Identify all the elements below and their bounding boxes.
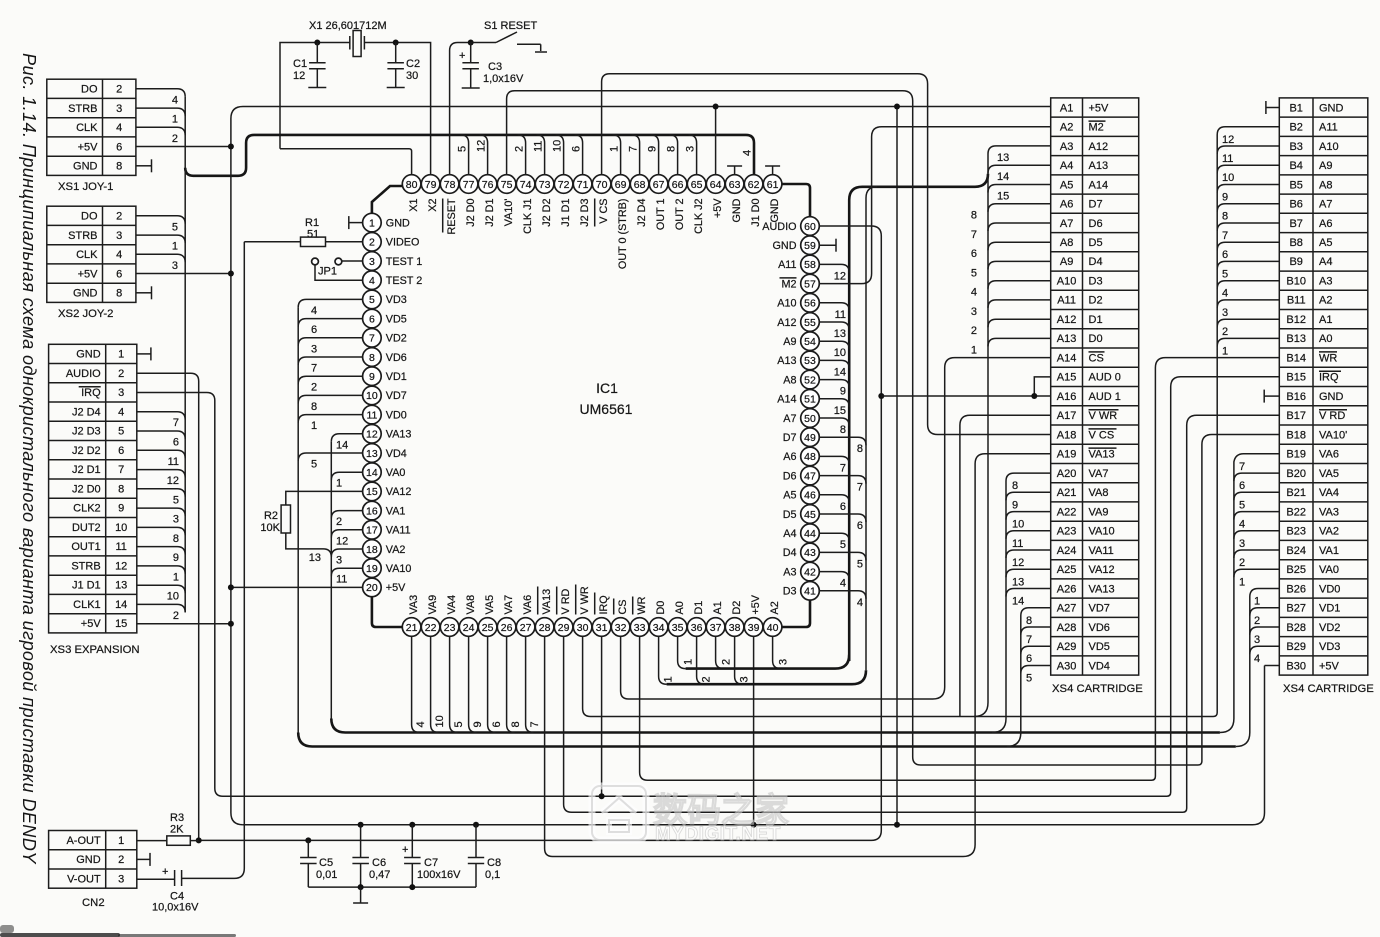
ground B16 (1264, 395, 1279, 397)
svg-text:3: 3 (118, 873, 124, 885)
svg-text:1: 1 (608, 146, 620, 152)
wire VD bundle left (297, 307, 299, 734)
svg-text:2: 2 (116, 84, 122, 96)
svg-text:V RD: V RD (560, 589, 572, 615)
svg-text:61: 61 (767, 179, 779, 191)
svg-text:D1: D1 (693, 601, 705, 615)
svg-text:2: 2 (173, 610, 179, 622)
svg-text:VA11: VA11 (1089, 545, 1114, 557)
svg-text:VA2: VA2 (1319, 526, 1339, 538)
svg-text:J2 D4: J2 D4 (636, 199, 648, 227)
svg-text:D5: D5 (783, 509, 797, 521)
wire joystick bus bold (185, 135, 754, 176)
capacitor C3 1,0x16V (459, 43, 524, 89)
svg-text:2: 2 (116, 211, 122, 223)
wire A bundle vertical right (849, 174, 988, 661)
svg-text:10: 10 (366, 390, 378, 402)
svg-text:D7: D7 (1089, 199, 1103, 211)
svg-text:J2 D0: J2 D0 (465, 199, 477, 227)
svg-text:A24: A24 (1057, 545, 1077, 557)
svg-text:J1 D1: J1 D1 (560, 199, 572, 227)
wire VCS pin70 to A18 (602, 74, 1051, 435)
wire XS1 +5V (136, 146, 231, 148)
svg-text:77: 77 (463, 179, 475, 191)
svg-text:VA11: VA11 (386, 525, 411, 537)
wire WR pin33 to B14 (640, 358, 1280, 781)
svg-text:10,0x16V: 10,0x16V (152, 902, 199, 914)
svg-text:A1: A1 (1319, 314, 1332, 326)
svg-text:47: 47 (804, 470, 816, 482)
svg-text:5: 5 (840, 539, 846, 551)
svg-text:A8: A8 (1319, 179, 1332, 191)
svg-text:A11: A11 (1057, 295, 1076, 307)
resistor R2 10K (260, 491, 362, 557)
svg-text:XS1 JOY-1: XS1 JOY-1 (58, 181, 113, 193)
svg-text:55: 55 (804, 317, 816, 329)
svg-text:A5: A5 (1319, 237, 1332, 249)
svg-text:14: 14 (366, 467, 378, 479)
svg-text:6: 6 (369, 313, 375, 325)
node C6 bottom (358, 884, 364, 890)
svg-text:23: 23 (444, 622, 456, 634)
node pin64 +5V (713, 104, 719, 110)
svg-text:+5V: +5V (81, 618, 102, 630)
svg-text:A9: A9 (783, 336, 796, 348)
svg-text:B19: B19 (1286, 449, 1306, 461)
svg-text:B20: B20 (1286, 468, 1306, 480)
svg-text:A12: A12 (777, 317, 796, 329)
svg-text:51: 51 (804, 394, 816, 406)
wire chip corner TL (372, 186, 402, 213)
svg-text:24: 24 (463, 622, 475, 634)
svg-text:4: 4 (971, 287, 977, 299)
svg-text:VIDEO: VIDEO (386, 237, 420, 249)
svg-text:34: 34 (653, 622, 665, 634)
svg-text:2: 2 (1222, 326, 1228, 338)
svg-text:VA3: VA3 (1319, 506, 1339, 518)
svg-text:12: 12 (293, 70, 305, 82)
svg-text:70: 70 (596, 179, 608, 191)
svg-text:VD6: VD6 (386, 352, 407, 364)
svg-text:A22: A22 (1057, 506, 1077, 518)
svg-text:B15: B15 (1286, 372, 1306, 384)
svg-text:C1: C1 (293, 58, 307, 70)
wire A6-A13 D hooks (971, 204, 1051, 357)
node +5V x897 top (894, 104, 900, 110)
node C5 top (305, 837, 311, 843)
svg-text:VA12: VA12 (1089, 564, 1115, 576)
svg-text:69: 69 (615, 179, 627, 191)
svg-text:5: 5 (172, 221, 178, 233)
svg-text:35: 35 (672, 622, 684, 634)
svg-text:9: 9 (173, 552, 179, 564)
wire XS3 +5V (137, 623, 231, 625)
svg-text:8: 8 (971, 210, 977, 222)
wire pin39 +5V (753, 636, 755, 825)
svg-text:8: 8 (173, 533, 179, 545)
svg-text:4: 4 (311, 305, 317, 317)
svg-text:A21: A21 (1057, 487, 1077, 499)
svg-text:4: 4 (741, 150, 753, 156)
node XS1 +5V (228, 144, 234, 150)
svg-text:R3: R3 (170, 812, 184, 824)
svg-text:11: 11 (115, 541, 126, 553)
svg-text:D3: D3 (783, 586, 797, 598)
svg-text:8: 8 (311, 401, 317, 413)
svg-text:2: 2 (971, 325, 977, 337)
svg-text:14: 14 (336, 439, 348, 451)
svg-text:B7: B7 (1289, 218, 1302, 230)
svg-text:5: 5 (311, 459, 317, 471)
svg-text:C6: C6 (372, 857, 386, 869)
svg-text:3: 3 (173, 514, 179, 526)
svg-text:A28: A28 (1057, 622, 1077, 634)
ground pin1 (349, 222, 363, 224)
svg-text:A10: A10 (1319, 141, 1339, 153)
svg-text:67: 67 (653, 179, 665, 191)
svg-text:3: 3 (971, 306, 977, 318)
svg-text:B3: B3 (1289, 141, 1302, 153)
svg-text:A0: A0 (1319, 333, 1332, 345)
svg-text:B6: B6 (1289, 199, 1302, 211)
capacitor C1 12 (293, 43, 326, 88)
capacitor C7 100x16V (402, 825, 461, 887)
svg-text:48: 48 (804, 451, 816, 463)
wire AUDIO pin60 down (199, 226, 882, 840)
svg-text:GND: GND (73, 288, 98, 300)
svg-text:B30: B30 (1286, 660, 1306, 672)
svg-text:MYDIGIT.NET: MYDIGIT.NET (655, 824, 781, 845)
wire A17 branch (960, 415, 1051, 716)
svg-text:4: 4 (116, 249, 122, 261)
wire A hooks right col (819, 264, 849, 589)
svg-text:1: 1 (1222, 345, 1228, 357)
svg-text:IRQ: IRQ (81, 387, 101, 399)
svg-text:VA12: VA12 (386, 486, 412, 498)
svg-text:54: 54 (804, 336, 816, 348)
svg-text:1,0x16V: 1,0x16V (483, 73, 524, 85)
svg-text:40: 40 (767, 622, 779, 634)
svg-text:A16: A16 (1057, 391, 1077, 403)
svg-text:6: 6 (116, 268, 122, 280)
svg-text:3: 3 (336, 555, 342, 567)
svg-text:A8: A8 (1060, 237, 1073, 249)
svg-text:IRQ: IRQ (1319, 372, 1339, 384)
svg-text:VA10': VA10' (503, 199, 515, 227)
wire +5V bus top (231, 107, 1051, 119)
svg-text:VD2: VD2 (386, 333, 407, 345)
svg-text:1: 1 (173, 571, 179, 583)
svg-text:OUT1: OUT1 (71, 541, 100, 553)
svg-text:A13: A13 (777, 355, 796, 367)
svg-text:1: 1 (1239, 576, 1245, 588)
svg-text:DO: DO (81, 84, 98, 96)
svg-text:6: 6 (118, 445, 124, 457)
capacitor C6 0,47 (352, 825, 390, 887)
svg-text:7: 7 (840, 462, 846, 474)
svg-text:7: 7 (311, 363, 317, 375)
svg-text:51: 51 (307, 229, 319, 241)
svg-text:C5: C5 (319, 857, 333, 869)
node pin20 +5V (228, 584, 234, 590)
crystal X1 26,601712M (309, 20, 387, 57)
svg-text:32: 32 (615, 622, 627, 634)
switch S1 RESET (471, 20, 547, 52)
svg-text:VA4: VA4 (1319, 487, 1339, 499)
svg-text:A2: A2 (1060, 122, 1073, 134)
svg-text:64: 64 (710, 179, 722, 191)
svg-text:76: 76 (482, 179, 494, 191)
svg-text:5: 5 (173, 494, 179, 506)
svg-text:VD6: VD6 (1089, 622, 1110, 634)
wire VIDEO vertical (183, 242, 244, 879)
svg-text:CS: CS (1089, 352, 1104, 364)
svg-text:3: 3 (1222, 307, 1228, 319)
svg-text:3: 3 (778, 659, 790, 665)
wire VA hooks left (331, 434, 362, 586)
svg-text:IC1: IC1 (596, 380, 618, 396)
svg-text:8: 8 (1026, 615, 1032, 627)
svg-text:3: 3 (1254, 634, 1260, 646)
svg-text:VA13: VA13 (1089, 449, 1115, 461)
wire AUDIO from XS3 (137, 373, 199, 840)
svg-text:52: 52 (804, 374, 816, 386)
svg-text:14: 14 (834, 366, 846, 378)
svg-text:GND: GND (773, 240, 797, 252)
wire XS1 hooks (136, 89, 185, 145)
svg-text:2K: 2K (170, 824, 184, 836)
wire chip corner BL (372, 597, 402, 627)
node IRQ junction (599, 793, 605, 799)
wire ADDR-B bundle (1217, 127, 1279, 713)
svg-text:A7: A7 (1060, 218, 1073, 230)
ground pin63 (734, 166, 736, 175)
svg-text:+5V: +5V (386, 582, 406, 594)
svg-text:56: 56 (804, 298, 816, 310)
svg-text:C2: C2 (406, 58, 420, 70)
svg-text:VD5: VD5 (386, 313, 407, 325)
svg-text:STRB: STRB (68, 230, 97, 242)
svg-text:6: 6 (1239, 480, 1245, 492)
svg-text:VD1: VD1 (386, 371, 407, 383)
svg-text:10: 10 (1012, 519, 1024, 531)
svg-text:J2 D1: J2 D1 (484, 199, 496, 227)
capacitor C8 0,1 (468, 825, 501, 887)
ground pin59 (819, 244, 836, 246)
connector XS3 EXPANSION (49, 344, 140, 656)
svg-text:A30: A30 (1057, 660, 1077, 672)
svg-text:M2: M2 (782, 278, 797, 290)
svg-text:4: 4 (172, 94, 178, 106)
svg-text:VA5: VA5 (484, 595, 496, 615)
svg-text:7: 7 (971, 229, 977, 241)
svg-text:B16: B16 (1286, 391, 1306, 403)
wire VA-A bundle (992, 473, 1051, 732)
svg-text:66: 66 (672, 179, 684, 191)
svg-text:5: 5 (1239, 499, 1245, 511)
svg-text:8: 8 (116, 288, 122, 300)
svg-text:A3: A3 (1060, 141, 1073, 153)
node X1-C1 (314, 40, 320, 46)
wire X1 to pin 80 (280, 149, 412, 175)
svg-text:R1: R1 (305, 217, 319, 229)
svg-text:B11: B11 (1287, 295, 1306, 307)
svg-text:16: 16 (366, 505, 378, 517)
svg-text:68: 68 (634, 179, 646, 191)
svg-text:5: 5 (369, 294, 375, 306)
svg-text:1: 1 (118, 349, 124, 361)
svg-text:VA4: VA4 (446, 595, 458, 615)
svg-text:59: 59 (804, 240, 816, 252)
svg-text:+5V: +5V (78, 268, 99, 280)
svg-text:X1: X1 (408, 199, 420, 212)
svg-text:10: 10 (834, 347, 846, 359)
svg-text:7: 7 (627, 146, 639, 152)
svg-text:1: 1 (971, 344, 977, 356)
svg-text:A2: A2 (769, 601, 781, 614)
capacitor C5 0,01 (300, 840, 337, 887)
svg-text:9: 9 (646, 146, 658, 152)
svg-text:B23: B23 (1286, 526, 1306, 538)
svg-text:AUD 0: AUD 0 (1089, 372, 1121, 384)
wire IRQ pin31 vertical (601, 636, 603, 796)
svg-text:1: 1 (1254, 596, 1260, 608)
svg-text:V CS: V CS (1089, 429, 1115, 441)
svg-text:XS4 CARTRIDGE: XS4 CARTRIDGE (1052, 683, 1143, 695)
svg-text:V RD: V RD (1319, 410, 1345, 422)
svg-text:A12: A12 (1089, 141, 1109, 153)
svg-text:13: 13 (366, 448, 378, 460)
svg-text:A5: A5 (1060, 179, 1073, 191)
svg-text:57: 57 (804, 278, 816, 290)
svg-text:D4: D4 (783, 547, 797, 559)
svg-text:XS2 JOY-2: XS2 JOY-2 (58, 308, 113, 320)
svg-text:13: 13 (309, 552, 321, 564)
svg-text:14: 14 (1012, 596, 1024, 608)
svg-text:A12: A12 (1057, 314, 1077, 326)
svg-text:33: 33 (634, 622, 646, 634)
svg-text:J1 D0: J1 D0 (750, 199, 762, 227)
svg-text:A7: A7 (1319, 199, 1332, 211)
svg-text:A4: A4 (1319, 256, 1332, 268)
svg-text:D0: D0 (655, 601, 667, 615)
svg-text:12: 12 (167, 475, 179, 487)
svg-text:A11: A11 (1319, 122, 1338, 134)
svg-text:VA13: VA13 (1089, 583, 1115, 595)
svg-text:CN2: CN2 (82, 897, 105, 909)
svg-text:B25: B25 (1286, 564, 1306, 576)
svg-text:VD2: VD2 (1319, 622, 1340, 634)
svg-text:A29: A29 (1057, 641, 1077, 653)
watermark logo MYDIGIT (592, 786, 789, 845)
svg-text:7: 7 (1222, 230, 1228, 242)
svg-text:39: 39 (748, 622, 760, 634)
svg-text:B28: B28 (1286, 622, 1306, 634)
svg-text:11: 11 (835, 309, 846, 321)
svg-text:A18: A18 (1057, 429, 1077, 441)
svg-text:J2 D1: J2 D1 (72, 464, 101, 476)
svg-text:VA7: VA7 (1089, 468, 1109, 480)
svg-text:5: 5 (456, 146, 468, 152)
svg-text:VD0: VD0 (386, 409, 407, 421)
op-amp IC1 UM6561 pin ring (363, 175, 820, 637)
ground XS3 GND row1 (137, 353, 151, 355)
svg-text:6: 6 (971, 248, 977, 260)
svg-text:3: 3 (311, 343, 317, 355)
svg-text:12: 12 (115, 560, 127, 572)
svg-text:8: 8 (510, 721, 522, 727)
svg-text:GND: GND (386, 217, 410, 229)
svg-text:49: 49 (804, 432, 816, 444)
capacitor C4 10,0x16V (137, 866, 199, 914)
svg-text:2: 2 (118, 368, 124, 380)
svg-text:46: 46 (804, 490, 816, 502)
svg-text:DO: DO (81, 211, 98, 223)
svg-text:J1 D1: J1 D1 (72, 580, 101, 592)
svg-text:10K: 10K (260, 522, 280, 534)
svg-text:62: 62 (748, 179, 760, 191)
wire VA bundle left (330, 442, 332, 720)
svg-text:GND: GND (73, 161, 98, 173)
svg-text:10: 10 (551, 140, 563, 152)
wire VD-A bundle (1007, 608, 1051, 747)
svg-text:B29: B29 (1286, 641, 1306, 653)
svg-text:6: 6 (1222, 249, 1228, 261)
svg-text:10: 10 (167, 591, 179, 603)
svg-text:VA6: VA6 (1319, 449, 1339, 461)
svg-text:5: 5 (857, 558, 863, 570)
svg-text:53: 53 (804, 355, 816, 367)
svg-text:A4: A4 (1060, 160, 1073, 172)
svg-text:C3: C3 (488, 61, 502, 73)
svg-text:A7: A7 (783, 413, 796, 425)
svg-text:10: 10 (115, 522, 127, 534)
wire chip corner TR (782, 184, 810, 216)
svg-text:IRQ: IRQ (598, 595, 610, 614)
svg-text:J2 D4: J2 D4 (72, 406, 101, 418)
svg-text:B26: B26 (1286, 583, 1306, 595)
wire B27-B29 hooks (1250, 596, 1280, 666)
svg-text:B24: B24 (1286, 545, 1306, 557)
svg-text:A19: A19 (1057, 449, 1077, 461)
svg-text:+5V: +5V (1089, 102, 1110, 114)
svg-text:STRB: STRB (68, 103, 97, 115)
svg-text:11: 11 (366, 409, 377, 421)
svg-text:6: 6 (857, 520, 863, 532)
svg-text:VD3: VD3 (1319, 641, 1340, 653)
svg-text:CS: CS (617, 600, 629, 615)
svg-text:5: 5 (1222, 268, 1228, 280)
svg-text:72: 72 (558, 179, 570, 191)
svg-text:8: 8 (369, 352, 375, 364)
wire bus bundle XS1/XS2/XS3 (184, 97, 186, 613)
svg-text:D5: D5 (1089, 237, 1103, 249)
svg-text:A13: A13 (1089, 160, 1109, 172)
svg-text:VD0: VD0 (1319, 583, 1340, 595)
wire A28-A30 hooks (1021, 615, 1051, 685)
svg-text:3: 3 (172, 260, 178, 272)
svg-text:B17: B17 (1286, 410, 1306, 422)
svg-text:80: 80 (406, 179, 418, 191)
svg-text:42: 42 (804, 566, 816, 578)
svg-text:6: 6 (311, 324, 317, 336)
svg-text:B8: B8 (1289, 237, 1302, 249)
wire D bundle vertical right (866, 187, 877, 670)
svg-text:45: 45 (804, 509, 816, 521)
svg-text:4: 4 (840, 578, 846, 590)
svg-text:73: 73 (539, 179, 551, 191)
svg-text:B4: B4 (1289, 160, 1302, 172)
